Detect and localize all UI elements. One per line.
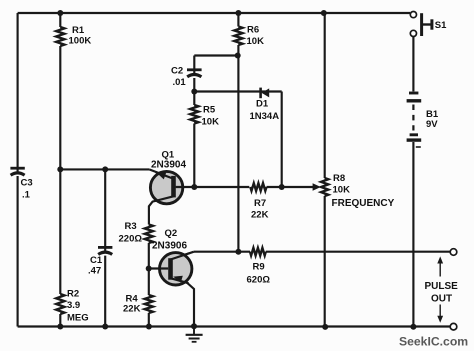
svg-text:22K: 22K (251, 210, 269, 221)
svg-text:10K: 10K (247, 36, 265, 47)
svg-text:R3: R3 (125, 221, 137, 232)
svg-text:9V: 9V (426, 119, 438, 130)
svg-text:SeekIC.com: SeekIC.com (399, 335, 468, 349)
svg-text:Q2: Q2 (165, 228, 178, 239)
svg-text:R2: R2 (67, 289, 79, 300)
svg-text:D1: D1 (256, 99, 269, 110)
svg-text:S1: S1 (435, 20, 447, 31)
svg-text:2N3904: 2N3904 (151, 160, 186, 171)
svg-text:10K: 10K (202, 117, 220, 128)
svg-text:C1: C1 (90, 255, 103, 266)
svg-text:2N3906: 2N3906 (152, 241, 187, 252)
svg-text:1N34A: 1N34A (250, 111, 280, 122)
svg-text:.01: .01 (173, 77, 187, 88)
svg-text:R5: R5 (203, 105, 216, 116)
svg-text:3.9: 3.9 (67, 300, 80, 311)
svg-text:MEG: MEG (67, 313, 89, 324)
svg-text:FREQUENCY: FREQUENCY (332, 198, 395, 209)
svg-text:R7: R7 (254, 198, 266, 209)
svg-text:R6: R6 (247, 25, 259, 36)
svg-text:220Ω: 220Ω (119, 234, 143, 245)
svg-text:R1: R1 (72, 25, 85, 36)
svg-text:.1: .1 (22, 190, 31, 201)
svg-text:620Ω: 620Ω (247, 275, 271, 286)
svg-text:22K: 22K (123, 304, 141, 315)
svg-text:PULSE: PULSE (425, 281, 459, 292)
svg-text:OUT: OUT (431, 294, 452, 305)
svg-text:.47: .47 (88, 266, 101, 277)
svg-text:10K: 10K (333, 185, 351, 196)
svg-text:R9: R9 (253, 262, 265, 273)
svg-text:100K: 100K (69, 36, 92, 47)
svg-text:R8: R8 (333, 173, 345, 184)
svg-text:C2: C2 (171, 66, 183, 77)
svg-text:C3: C3 (21, 178, 33, 189)
